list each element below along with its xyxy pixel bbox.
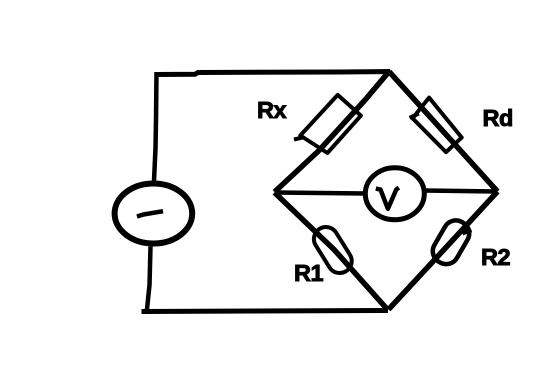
svg-text:Rx: Rx — [257, 97, 286, 123]
resistor R2 — [428, 216, 474, 269]
resistor Rx — [294, 95, 361, 153]
wire — [389, 72, 498, 192]
voltage source — [115, 184, 193, 244]
wire — [275, 193, 388, 310]
svg-text:Rd: Rd — [483, 105, 513, 131]
wire — [424, 191, 498, 192]
wire — [154, 72, 157, 181]
wire — [142, 311, 389, 312]
wire — [156, 72, 390, 75]
svg-text:R1: R1 — [294, 260, 323, 286]
wire — [147, 247, 151, 312]
wire — [275, 193, 367, 194]
resistor Rd — [410, 98, 462, 153]
voltmeter V — [365, 168, 424, 220]
svg-text:R2: R2 — [481, 244, 510, 270]
wire — [389, 192, 498, 310]
wire — [275, 71, 390, 192]
resistor R1 — [309, 222, 356, 277]
label R1 — [294, 260, 323, 286]
